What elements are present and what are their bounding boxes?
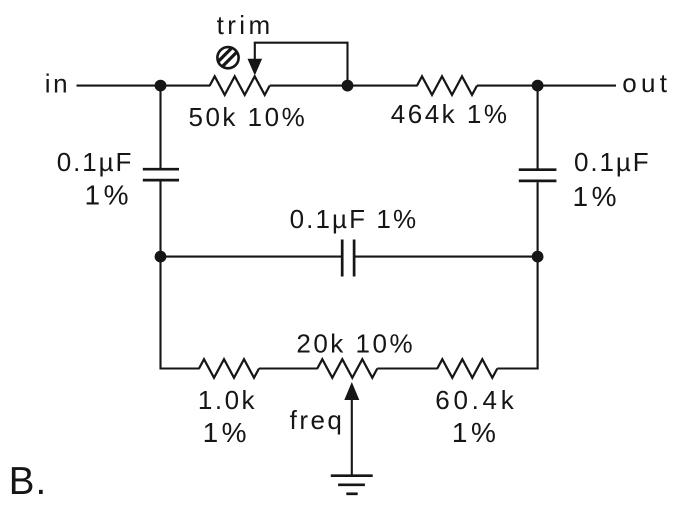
- wire: middle row right: [354, 256, 537, 258]
- svg-text:0.1µF: 0.1µF: [574, 147, 651, 177]
- wire: right branch upper: [537, 86, 539, 169]
- wire: output lead: [538, 85, 616, 87]
- wire: right mid junction to bottom-right corner: [537, 257, 539, 370]
- svg-text:1.0k: 1.0k: [198, 385, 257, 415]
- svg-text:1%: 1%: [573, 181, 620, 212]
- wire: 60.4k to bottom-right corner: [497, 367, 538, 369]
- svg-text:0.1µF 1%: 0.1µF 1%: [290, 204, 419, 234]
- svg-text:1%: 1%: [452, 417, 499, 448]
- trimpot screw-adjust symbol: [215, 45, 239, 69]
- potentiometer 20k resistive element: [317, 359, 377, 378]
- resistor 1.0k 1%: [199, 359, 259, 378]
- wire: wiper feedback loop: [255, 43, 348, 86]
- wire: input lead: [77, 85, 161, 87]
- svg-text:60.4k: 60.4k: [435, 385, 517, 415]
- trimmer potentiometer 50k resistive element: [210, 76, 270, 95]
- node: top-left junction: [155, 80, 167, 92]
- wire: 1.0k to 20k: [259, 367, 318, 369]
- capacitor C-mid 0.1uF 1%: [342, 240, 354, 277]
- node: top-right junction: [532, 80, 544, 92]
- wire: bottom row left: [160, 367, 200, 369]
- node: right mid junction: [532, 251, 544, 263]
- freq wiper arrow: [344, 382, 359, 400]
- ground: [331, 476, 373, 494]
- wire: left branch upper: [159, 86, 161, 168]
- node: left mid junction: [155, 251, 167, 263]
- wire: left branch lower: [159, 181, 161, 256]
- svg-text:464k 1%: 464k 1%: [391, 99, 510, 129]
- wire: 464k to top-right junction: [477, 85, 538, 87]
- wire: trimpot to junction: [270, 85, 348, 87]
- svg-text:50k 10%: 50k 10%: [189, 102, 308, 132]
- wire: top-left junction to trimpot: [161, 85, 211, 87]
- wire: left mid junction to bottom-left corner: [159, 257, 161, 370]
- wire: right branch lower: [537, 182, 539, 256]
- wire: junction to 464k: [348, 85, 418, 87]
- wire: middle row left: [161, 256, 343, 258]
- wire: freq arrow stem: [351, 398, 353, 476]
- svg-text:freq: freq: [290, 405, 345, 435]
- svg-text:B.: B.: [9, 460, 47, 503]
- node: trimpot/464k junction: [342, 80, 354, 92]
- svg-text:out: out: [622, 68, 671, 98]
- capacitor C-left 0.1uF 1%: [143, 169, 179, 180]
- svg-text:1%: 1%: [203, 417, 250, 448]
- resistor 60.4k 1%: [437, 359, 497, 378]
- svg-text:0.1µF: 0.1µF: [57, 147, 134, 177]
- trimpot wiper arrow: [248, 59, 263, 76]
- svg-text:trim: trim: [217, 10, 274, 40]
- svg-text:20k 10%: 20k 10%: [296, 329, 415, 359]
- wire: 20k to 60.4k: [377, 367, 438, 369]
- resistor 464k 1%: [417, 76, 477, 95]
- svg-text:in: in: [45, 69, 70, 99]
- svg-text:1%: 1%: [85, 180, 132, 211]
- capacitor C-right 0.1uF 1%: [519, 170, 557, 181]
